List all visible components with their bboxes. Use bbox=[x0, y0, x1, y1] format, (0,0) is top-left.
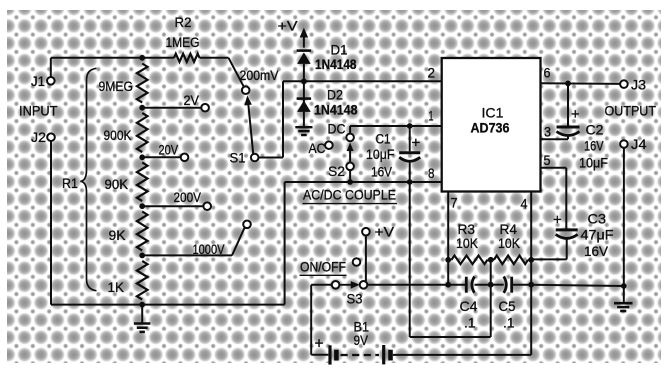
svg-text:16V: 16V bbox=[371, 165, 392, 180]
node chain bottom junction bbox=[139, 302, 145, 308]
wire 200V tap bbox=[142, 205, 203, 207]
svg-text:+V: +V bbox=[278, 19, 298, 34]
svg-text:AC/DC COUPLE: AC/DC COUPLE bbox=[303, 188, 396, 203]
capacitor C4 .1 bbox=[448, 284, 466, 286]
svg-text:1K: 1K bbox=[108, 280, 125, 295]
svg-text:1MEG: 1MEG bbox=[166, 35, 200, 50]
ground right bbox=[623, 286, 625, 303]
svg-text:1000V: 1000V bbox=[193, 242, 225, 257]
wire IC pin 1 to DC contact bbox=[350, 125, 442, 127]
svg-text:D1: D1 bbox=[331, 43, 348, 58]
node 200V tap bbox=[139, 203, 145, 209]
svg-text:9MEG: 9MEG bbox=[99, 79, 134, 94]
svg-text:9V: 9V bbox=[354, 333, 369, 348]
wire IC pin 4 down bbox=[530, 192, 532, 355]
switch S1 arm bbox=[248, 101, 253, 154]
node C5 right pin4 bbox=[528, 282, 534, 288]
node C1 top bbox=[407, 123, 413, 129]
wire battery - to pin4 line bbox=[393, 354, 531, 356]
wire battery + riser bbox=[311, 284, 332, 286]
svg-text:2V: 2V bbox=[184, 93, 200, 108]
node S2 on couple row bbox=[347, 179, 353, 185]
node 1000V tap bbox=[139, 253, 145, 259]
node 20V tap bbox=[139, 154, 145, 160]
wire 1000V tap bbox=[142, 254, 232, 256]
wire IC pin 6 to J3 bbox=[541, 82, 621, 85]
switch S3 arm arrow bbox=[339, 284, 353, 286]
wire J1 to divider top bbox=[50, 58, 52, 77]
svg-text:8: 8 bbox=[428, 166, 435, 181]
svg-text:16V: 16V bbox=[584, 139, 604, 154]
switch S1 pole bbox=[251, 154, 259, 162]
svg-text:S3: S3 bbox=[347, 292, 363, 307]
svg-text:D2: D2 bbox=[327, 88, 343, 103]
svg-text:OUTPUT: OUTPUT bbox=[605, 104, 657, 119]
svg-text:10K: 10K bbox=[498, 236, 520, 251]
svg-text:+: + bbox=[412, 135, 421, 152]
wire C1 bottom to mid node detour bbox=[409, 182, 411, 337]
svg-text:AD736: AD736 bbox=[471, 121, 510, 136]
svg-text:.1: .1 bbox=[503, 316, 515, 331]
node pin6 C2 junction bbox=[565, 81, 571, 87]
wire IC pin 5 to C3 bbox=[541, 167, 567, 169]
svg-text:200mV: 200mV bbox=[240, 68, 279, 83]
node right ground junction bbox=[621, 283, 627, 289]
wire +V to S3 pole bbox=[365, 235, 367, 281]
wire IC pin 3 to C2 bbox=[541, 138, 569, 140]
svg-text:1: 1 bbox=[429, 109, 434, 124]
wire S1 pole to signal riser bbox=[258, 157, 283, 159]
switch S2 arm bbox=[349, 148, 351, 163]
node C1 bottom bbox=[407, 179, 413, 185]
svg-text:C5: C5 bbox=[499, 299, 516, 314]
+V supply arrow top bbox=[303, 37, 305, 48]
svg-text:10μF: 10μF bbox=[579, 156, 608, 171]
node D1 D2 junction bbox=[301, 78, 307, 84]
svg-text:20V: 20V bbox=[159, 143, 179, 158]
svg-text:4: 4 bbox=[521, 197, 528, 212]
node C4 left bbox=[445, 282, 451, 288]
svg-text:900K: 900K bbox=[104, 128, 132, 143]
node divider top junction bbox=[139, 55, 145, 61]
node R3 left bbox=[445, 257, 451, 263]
svg-text:C4: C4 bbox=[460, 299, 478, 314]
svg-text:+: + bbox=[315, 336, 324, 353]
svg-text:3: 3 bbox=[544, 125, 551, 140]
svg-text:J4: J4 bbox=[631, 137, 647, 152]
svg-text:S2: S2 bbox=[328, 164, 345, 179]
svg-text:6: 6 bbox=[544, 66, 551, 81]
node R4 right C3 bbox=[528, 257, 534, 263]
svg-text:R4: R4 bbox=[500, 222, 518, 237]
svg-text:47μF: 47μF bbox=[581, 228, 614, 243]
svg-text:200V: 200V bbox=[174, 190, 202, 205]
wire signal row to IC pin 2 bbox=[283, 80, 442, 82]
svg-text:C2: C2 bbox=[586, 123, 604, 138]
switch S3 pole bbox=[360, 281, 368, 289]
svg-text:1N4148: 1N4148 bbox=[314, 103, 358, 118]
svg-text:1N4148: 1N4148 bbox=[315, 57, 357, 72]
wire 20V tap bbox=[142, 156, 180, 158]
wire R2 to 200mV contact bbox=[200, 57, 229, 59]
svg-text:2: 2 bbox=[428, 66, 436, 81]
svg-text:S1: S1 bbox=[230, 151, 246, 166]
svg-text:R2: R2 bbox=[175, 15, 192, 30]
svg-text:J2: J2 bbox=[31, 130, 46, 145]
contact S3 left bbox=[332, 281, 340, 289]
capacitor C2 bbox=[567, 83, 569, 125]
svg-text:10K: 10K bbox=[456, 236, 478, 251]
svg-text:.1: .1 bbox=[464, 316, 476, 331]
svg-text:INPUT: INPUT bbox=[19, 104, 58, 119]
svg-text:C1: C1 bbox=[376, 132, 391, 147]
wire couple row drop to bus bbox=[284, 182, 286, 305]
svg-text:J1: J1 bbox=[31, 74, 45, 89]
wire common bus bbox=[51, 304, 285, 306]
ground chain bbox=[141, 305, 143, 324]
wire mid node down bbox=[490, 260, 492, 337]
capacitor C5 .1 bbox=[491, 284, 504, 286]
svg-text:+: + bbox=[571, 106, 580, 123]
ground D2 bbox=[303, 112, 305, 127]
svg-text:DC: DC bbox=[328, 122, 346, 137]
wire AC/DC couple row bbox=[285, 181, 442, 183]
svg-text:J3: J3 bbox=[631, 78, 646, 93]
svg-text:+V: +V bbox=[375, 225, 395, 240]
svg-text:+: + bbox=[553, 212, 562, 229]
node R3 R4 mid bbox=[488, 257, 494, 263]
node C4 C5 mid bbox=[488, 282, 494, 288]
wire J2 down to common bus bbox=[50, 141, 52, 305]
node 2V tap bbox=[139, 105, 145, 111]
svg-text:5: 5 bbox=[544, 153, 551, 168]
wire S3 pole to network bbox=[367, 284, 448, 286]
op-amp U1 IC1 AD736 box bbox=[442, 58, 541, 192]
wire 2V tap bbox=[142, 107, 201, 109]
svg-text:9K: 9K bbox=[109, 228, 126, 243]
svg-text:IC1: IC1 bbox=[482, 106, 504, 121]
svg-text:7: 7 bbox=[451, 196, 458, 211]
wire J4 down to ground node bbox=[623, 148, 625, 286]
svg-text:ON/OFF: ON/OFF bbox=[300, 260, 346, 275]
svg-text:AC: AC bbox=[309, 141, 326, 156]
contact S3 off bbox=[353, 258, 361, 266]
svg-text:R1: R1 bbox=[62, 176, 78, 191]
svg-text:10μF: 10μF bbox=[366, 147, 395, 162]
capacitor C1 bbox=[409, 126, 411, 151]
svg-text:C3: C3 bbox=[588, 212, 607, 227]
wire pin4 node to right ground bbox=[531, 285, 624, 286]
svg-text:R3: R3 bbox=[458, 222, 476, 237]
svg-text:90K: 90K bbox=[105, 177, 129, 192]
wire IC pin 7 down bbox=[447, 192, 449, 285]
svg-text:16V: 16V bbox=[584, 244, 608, 259]
